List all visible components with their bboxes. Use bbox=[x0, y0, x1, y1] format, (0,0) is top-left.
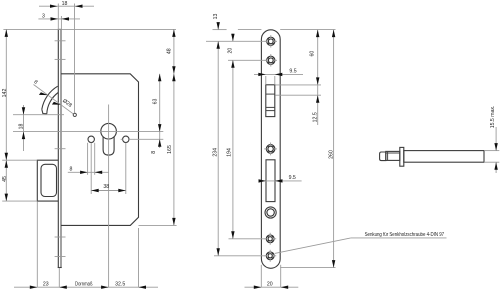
dimension 20 plate width bbox=[245, 265, 299, 289]
extension line hole5 level bbox=[214, 255, 266, 257]
dimension 60 bbox=[310, 30, 320, 85]
extension line deadbolt top level bbox=[2, 159, 37, 161]
euro profile cylinder hole stem bbox=[103, 137, 114, 155]
svg-text:165: 165 bbox=[167, 145, 173, 154]
lock case outline bbox=[61, 74, 139, 226]
svg-text:9.5: 9.5 bbox=[289, 69, 296, 75]
dimension 3 faceplate thickness bbox=[38, 14, 80, 30]
svg-text:142: 142 bbox=[2, 89, 8, 98]
svg-text:234: 234 bbox=[212, 148, 218, 157]
extension line plate top right bbox=[280, 29, 335, 31]
dimension 13 and 234 bbox=[212, 14, 220, 256]
extension line hole1 level bbox=[206, 40, 267, 42]
extension line hole2 level bbox=[228, 59, 267, 61]
faceplate front outline stadium bbox=[261, 30, 280, 268]
dimension 48 bbox=[167, 29, 176, 73]
extension line faceplate top level bbox=[3, 28, 176, 30]
dimension 142 bbox=[2, 29, 8, 160]
svg-text:23: 23 bbox=[43, 281, 49, 287]
svg-text:Senkung für Senkholzschraube 4: Senkung für Senkholzschraube 4-DIN 97 bbox=[365, 232, 445, 238]
diagonal radius dimension line to latch arc bbox=[33, 79, 73, 114]
svg-text:194: 194 bbox=[227, 148, 233, 157]
follower hole ring bbox=[265, 207, 276, 218]
dimension 8 cylinder to screw holes bbox=[151, 132, 161, 154]
dimension 165 bbox=[139, 74, 177, 226]
deadbolt face rounded rectangle bbox=[41, 164, 57, 196]
dimension 63 bbox=[152, 74, 161, 132]
screw hole 4 countersunk bbox=[264, 233, 276, 245]
extension line latch pivot level bbox=[13, 114, 64, 116]
svg-text:9.5: 9.5 bbox=[289, 175, 296, 181]
svg-text:48: 48 bbox=[167, 48, 173, 54]
svg-text:12.5: 12.5 bbox=[313, 112, 319, 122]
extension line hole4 level bbox=[229, 238, 267, 240]
svg-text:20: 20 bbox=[267, 281, 273, 287]
screw hole 3 countersunk bbox=[264, 143, 277, 156]
spindle collar bbox=[400, 147, 404, 166]
dimension 9.5 latch cutout bbox=[254, 69, 303, 85]
spindle neck bbox=[386, 151, 400, 160]
extension line deadbolt bottom level bbox=[2, 200, 37, 202]
faceplate side view front line bbox=[57, 29, 59, 267]
spindle shaft bbox=[404, 151, 484, 163]
latch bolt swing wedge bbox=[42, 86, 58, 114]
svg-text:8: 8 bbox=[151, 151, 157, 154]
screw hole 5 countersunk bbox=[264, 250, 276, 262]
svg-text:45: 45 bbox=[2, 176, 8, 182]
dimension 15.5 max bbox=[484, 106, 499, 173]
dimension 18 top horizontal bbox=[39, 1, 94, 113]
extension line latch inner line right bbox=[276, 94, 322, 96]
dimension 45 bbox=[2, 160, 8, 201]
svg-text:Dornmaß: Dornmaß bbox=[75, 281, 93, 287]
svg-text:8: 8 bbox=[70, 167, 73, 173]
extension line latch cutout top right bbox=[276, 84, 322, 86]
svg-text:13: 13 bbox=[213, 14, 219, 20]
screw hole 2 countersunk bbox=[265, 54, 277, 66]
left fixing screw hole bbox=[88, 136, 94, 142]
cylinder vertical centre line bbox=[108, 105, 110, 288]
svg-text:32.5: 32.5 bbox=[115, 281, 125, 287]
dimension 260 bbox=[328, 30, 335, 268]
dimension 12.5 bbox=[313, 85, 320, 125]
leader note Senkung bbox=[275, 232, 447, 254]
svg-text:63: 63 bbox=[152, 99, 158, 105]
dimension 8 screw hole slot width bbox=[68, 143, 109, 175]
faceplate top edge bbox=[58, 28, 62, 30]
svg-text:3: 3 bbox=[42, 14, 45, 20]
faceplate side view back line bbox=[60, 29, 62, 267]
dimension 18 vertical latch pivot to cylinder bbox=[19, 105, 26, 151]
screw hole tick marks on side faceplate bbox=[55, 41, 66, 257]
faceplate bottom edge bbox=[58, 267, 62, 269]
spindle tip cap bbox=[380, 152, 386, 161]
extension line screw hole level right bbox=[121, 138, 164, 140]
svg-text:18: 18 bbox=[19, 124, 25, 130]
bottom dimension chain 23 Dornmass 32.5 bbox=[14, 202, 158, 289]
svg-text:38: 38 bbox=[103, 184, 109, 190]
dimension 38 screw hole spacing bbox=[91, 143, 126, 194]
dimension 20 and 194 bbox=[227, 34, 235, 239]
extension line plate top left bbox=[213, 29, 262, 31]
dimension 9.5 deadbolt cutout bbox=[259, 175, 302, 183]
svg-text:18: 18 bbox=[62, 1, 68, 7]
svg-text:60: 60 bbox=[310, 51, 316, 57]
svg-text:15.5 max.: 15.5 max. bbox=[490, 106, 496, 129]
right fixing screw hole bbox=[123, 136, 129, 142]
svg-text:20: 20 bbox=[228, 48, 234, 54]
extension line cylinder centre level bbox=[13, 131, 163, 133]
euro profile cylinder hole circle bbox=[101, 123, 117, 139]
latch cutout bbox=[266, 85, 275, 117]
screw hole 1 countersunk bbox=[265, 35, 277, 47]
svg-text:260: 260 bbox=[328, 150, 334, 159]
deadbolt cutout bbox=[266, 160, 275, 202]
extension line plate bottom right bbox=[280, 267, 335, 269]
deadbolt thrown outer outline bbox=[37, 160, 58, 201]
latch pivot circle bbox=[73, 113, 76, 116]
